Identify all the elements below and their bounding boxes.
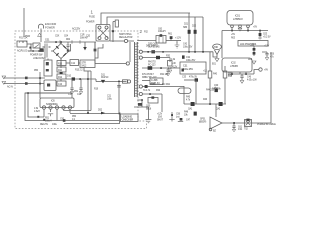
IC6 leg2 ground — [50, 109, 52, 112]
svg-text:TA 4.7k: TA 4.7k — [143, 89, 151, 92]
bottom transistor rail y104 — [184, 103, 226, 105]
wire from winding A down x210 — [209, 52, 211, 104]
dark blobs near connector bottom — [138, 103, 142, 106]
junction dots x40 — [39, 77, 41, 79]
junction dots on +5V rail — [231, 30, 233, 32]
label L7805 — [233, 15, 243, 22]
IC6 pin circles — [42, 106, 45, 109]
pill IC41 — [178, 88, 191, 94]
step down wire to ZNR — [213, 52, 217, 57]
lead wires to +5 wire — [232, 28, 248, 31]
junction x88 on mid rail — [87, 78, 89, 80]
secondary pin circle A — [139, 50, 142, 53]
wire T1 pri top to y13 — [101, 13, 190, 25]
text row under L78M05 — [212, 89, 221, 91]
diode D11 on rail — [101, 80, 105, 83]
stub into C308 — [142, 80, 150, 82]
label x40 — [34, 70, 39, 72]
svg-text:100uRY: 100uRY — [158, 31, 166, 33]
svg-text:B816: B816 — [146, 109, 152, 111]
label ZD5 — [263, 34, 271, 39]
svg-text:STR: STR — [81, 62, 86, 64]
junction — [141, 99, 143, 101]
svg-text:F01 T2A: F01 T2A — [19, 37, 28, 40]
ground mark under x24 — [38, 33, 42, 36]
regulator IC L7805 rounded body — [227, 11, 253, 26]
cap C5X blob — [67, 50, 70, 52]
svg-text:(xx): (xx) — [176, 117, 180, 119]
filter winding marks — [43, 46, 51, 48]
label under small box — [244, 129, 249, 131]
svg-text:C01: C01 — [45, 39, 50, 42]
svg-text:NJM2360A: NJM2360A — [46, 103, 58, 106]
diode D5 connector — [60, 59, 62, 82]
photocoupler PC1 tall box — [44, 60, 52, 76]
buzzer amp triangle — [210, 117, 222, 129]
vline x162 — [161, 94, 163, 112]
wire bridge bottom to caps row — [66, 62, 70, 64]
label R42 — [228, 73, 233, 78]
wire bridge left output into PC1 — [47, 59, 49, 61]
IC6 label — [46, 100, 58, 106]
svg-text:ENCODR: ENCODR — [45, 22, 56, 26]
fuse marker red circled 2 — [140, 29, 149, 34]
svg-text:100u 25V: 100u 25V — [183, 47, 193, 49]
dark marks lower — [182, 69, 184, 72]
labels under rail — [231, 34, 236, 40]
transformer T1 cross — [98, 28, 109, 39]
IC6 leg3 — [56, 109, 58, 120]
box Q50 — [148, 98, 158, 104]
secondary winding wire A — [142, 51, 213, 53]
loading checker text — [122, 115, 134, 121]
junction dot bus 2 — [60, 41, 62, 43]
svg-text:TR50: TR50 — [150, 84, 156, 86]
dark blob on small box — [246, 119, 249, 122]
cap C24 — [240, 74, 243, 80]
junction dots rail — [209, 103, 211, 105]
secondary pin circle C — [139, 85, 142, 88]
relay pins — [159, 36, 163, 43]
label C24 — [247, 77, 257, 82]
svg-text:AC IN: AC IN — [7, 86, 13, 89]
gnd cap C34 — [166, 74, 169, 77]
svg-text:R15 2.2: R15 2.2 — [75, 70, 83, 72]
wire long vertical x91 — [90, 71, 92, 111]
cap C32 junction — [182, 55, 185, 58]
capacitor C5X to gnd — [67, 42, 70, 50]
vertical x225 — [224, 66, 226, 104]
wire bridge top to bus — [60, 42, 62, 44]
svg-text:RGP10: RGP10 — [101, 77, 109, 79]
wire x203 feed to ZNR step — [202, 17, 204, 52]
dark mark left end y123.5 — [63, 119, 66, 122]
node small label above x24 line — [25, 36, 31, 38]
capacitor C12 box — [70, 60, 79, 66]
ZNR label — [213, 47, 218, 49]
cap labels — [68, 94, 82, 96]
junction x88 on y113 — [87, 112, 89, 114]
filter box FB01 — [238, 41, 268, 47]
label F01 row — [19, 37, 28, 40]
label under — [212, 64, 217, 66]
component stack left of C32 — [166, 56, 176, 71]
label SWITCHING REGULATOR — [119, 34, 133, 39]
resistor R20 on rail — [123, 80, 128, 83]
svg-text:POWER IN CABLE: POWER IN CABLE — [257, 123, 276, 126]
line filter core lines — [45, 44, 47, 58]
resistor R42 on x225 — [223, 71, 227, 78]
circle under triangle — [209, 128, 212, 131]
wire sec to connector — [128, 40, 134, 42]
svg-text:5412: 5412 — [81, 65, 87, 67]
diode D52 on y113 — [101, 112, 105, 115]
PC1 marks — [46, 62, 49, 65]
diode D23 on wire B — [156, 56, 160, 59]
svg-text:+5V: +5V — [253, 27, 257, 29]
thermistor block at x95 — [94, 42, 96, 48]
cap C15 drop — [70, 79, 73, 91]
secondary pin circle B — [139, 56, 142, 59]
label left of IC6 — [34, 108, 40, 113]
junction dots mid rail — [79, 78, 81, 80]
resistor block R12 — [57, 74, 66, 79]
IC6 leg4 — [63, 109, 65, 110]
label under triangle — [213, 131, 216, 133]
label Q50 — [146, 106, 152, 111]
labels mid — [214, 85, 219, 90]
junction dot near pin A — [147, 51, 149, 53]
label POWER upper left of T1 — [72, 28, 81, 31]
svg-text:IC02: IC02 — [231, 63, 236, 65]
svg-text:AC(PLUG): AC(PLUG) — [17, 50, 28, 53]
svg-text:100u 25V: 100u 25V — [183, 68, 193, 71]
ZNR oval — [213, 44, 222, 50]
label right faint — [257, 123, 276, 126]
label +12V — [168, 34, 181, 40]
polarity marks on AC lines — [25, 77, 28, 80]
svg-text:+5V: +5V — [231, 34, 235, 36]
FB01 dark text — [240, 43, 257, 46]
diode Q42 blob — [219, 102, 223, 106]
svg-text:REG 5V: REG 5V — [40, 124, 48, 126]
dark mark on stub — [195, 78, 198, 81]
U2 label — [81, 62, 87, 67]
regulator leads — [232, 24, 248, 26]
diode D31 dark on rail — [148, 66, 153, 70]
label R41 — [213, 74, 218, 76]
AC inlet terminal bottom — [2, 82, 6, 85]
label R19 — [94, 89, 99, 91]
gnd mark middle lead — [238, 28, 242, 31]
label rows under TR — [143, 89, 161, 92]
earth ground x148 — [146, 120, 152, 123]
wire y86.5 — [142, 86, 184, 88]
label AC — [7, 86, 13, 89]
label in box C31 — [183, 65, 193, 72]
gnd x172 — [169, 112, 174, 122]
AC line wire top — [4, 77, 45, 79]
label above relay — [158, 29, 166, 34]
wire T1 pri top2 to y17 — [107, 17, 203, 25]
wire relay to diode — [166, 40, 181, 42]
Q50 top blob — [151, 96, 154, 98]
junction dark — [171, 114, 173, 116]
resistor block R13 — [57, 81, 66, 86]
svg-text:C5X: C5X — [55, 36, 60, 38]
svg-text:470u 5V: 470u 5V — [189, 77, 198, 79]
tick marks on bus — [60, 40, 80, 44]
lower relay box — [44, 80, 56, 91]
svg-text:POWER: POWER — [86, 22, 95, 24]
svg-text:AC125V: AC125V — [72, 28, 81, 31]
secondary low rail y81.5 — [92, 79, 127, 82]
svg-text:SUP10 1N5: SUP10 1N5 — [148, 47, 160, 49]
svg-text:100uH: 100uH — [45, 120, 52, 122]
vertical x40 drop — [39, 72, 41, 98]
label +12 — [172, 67, 207, 73]
transformer terminals — [98, 26, 101, 29]
label C21 — [107, 96, 113, 101]
wire rail to buzzer — [215, 104, 217, 117]
svg-text:+5.2 5V: +5.2 5V — [263, 37, 271, 39]
labels under box — [182, 77, 198, 79]
ground glyph near +B — [175, 42, 180, 49]
ZNR gnd triangle — [215, 59, 219, 62]
junction end cap — [176, 41, 178, 44]
relay box mark — [47, 84, 50, 87]
svg-text:ZNR: ZNR — [213, 47, 218, 49]
fuse marker red circled 1 — [89, 10, 95, 19]
feedback wire left loop A — [25, 93, 120, 121]
zener stack mid right — [253, 46, 255, 56]
labels rail — [186, 97, 221, 111]
output terminal circle — [259, 68, 262, 71]
terminal circle rail — [126, 62, 129, 65]
svg-text:L7805CV: L7805CV — [233, 18, 243, 21]
svg-text:+12V: +12V — [264, 46, 270, 48]
AC line wire bottom — [4, 83, 44, 85]
label C12 — [71, 63, 76, 65]
wire bridge right up — [69, 44, 71, 51]
svg-text:50W AV: 50W AV — [80, 37, 88, 40]
dashed board outline — [15, 31, 147, 129]
junction dot fuse out — [29, 47, 31, 49]
svg-text:100u: 100u — [107, 99, 113, 101]
svg-text:PHOTO: PHOTO — [148, 62, 156, 64]
fuse F2 on switcher line — [113, 22, 115, 43]
junction dot — [231, 73, 233, 75]
label +5V right — [253, 27, 257, 29]
bottom left cluster near 184 — [184, 112, 191, 122]
wire y113 to x119 — [70, 113, 120, 115]
wire y94 — [142, 93, 162, 95]
relay RY1 box — [156, 36, 166, 44]
svg-text:POWER SW: POWER SW — [30, 55, 43, 57]
junction dot x163 — [162, 51, 164, 53]
junction dots loops — [27, 92, 29, 94]
SW regulator hybrid box U2 — [80, 60, 95, 68]
label PHOTO — [148, 62, 156, 67]
svg-text:+12V: +12V — [157, 114, 163, 116]
inductor L1 loop — [39, 24, 44, 28]
terminal circle rail right — [127, 80, 130, 83]
node ENCODR POWER label — [45, 22, 56, 29]
secondary winding wire B — [142, 57, 170, 59]
junction dot y94 — [149, 93, 151, 95]
svg-text:100u: 100u — [52, 124, 58, 126]
wire x119 down and left rail — [64, 114, 120, 124]
wire y100 from connector — [137, 99, 142, 101]
svg-text:CHECKER: CHECKER — [122, 118, 134, 121]
bridge rectifier D1-D4 diamond — [53, 44, 69, 59]
relay top blob — [160, 34, 163, 37]
label TR — [150, 83, 170, 86]
small choke box — [168, 61, 173, 67]
bottom mid cluster labels — [157, 114, 164, 122]
svg-text:(BEEP): (BEEP) — [199, 122, 206, 124]
cap C34 on rail — [167, 68, 170, 73]
label above pill — [206, 90, 215, 92]
C308 text — [151, 79, 160, 85]
wire x119 down — [118, 83, 120, 113]
cap C16 drop — [79, 79, 82, 91]
resistor block R10 — [57, 61, 66, 66]
wire bridge left — [51, 50, 53, 52]
diode blob under Q40 labels — [215, 89, 218, 93]
label rows IC51 — [142, 74, 169, 79]
wire +5 rail corner down — [221, 31, 223, 59]
vertical x184 — [183, 86, 185, 104]
label AC(PLUG) — [17, 50, 28, 53]
svg-text:SHUT: SHUT — [157, 120, 164, 122]
AC bus wire top — [44, 41, 96, 43]
label POWER left of transformer — [80, 22, 95, 40]
svg-text:FUSE: FUSE — [89, 17, 95, 19]
transformer T1 box — [96, 25, 110, 42]
junction near T1 right — [112, 30, 114, 32]
label C32 — [186, 57, 196, 62]
dark label C01 on bus left — [45, 39, 50, 42]
secondary pin circle D — [139, 92, 142, 95]
IC6 box NJM2360 — [40, 98, 74, 108]
label +9V — [264, 70, 268, 72]
wire C12 to U2 — [79, 62, 81, 64]
diode D21 vertical — [188, 13, 190, 52]
ZNR gnd wire — [216, 55, 218, 59]
wire y110.5 to x91 — [64, 110, 92, 112]
wire fuse to switch — [27, 44, 31, 51]
wire y107 — [134, 107, 149, 120]
svg-text:IC51 PC817: IC51 PC817 — [142, 74, 154, 76]
diode Q41 blob — [191, 102, 195, 106]
svg-text:+9V: +9V — [264, 70, 268, 72]
label L78M05 — [230, 63, 239, 69]
resistor block R11 — [57, 67, 66, 72]
svg-text:POWER: POWER — [45, 25, 55, 29]
diode D-bus arrow — [84, 42, 86, 47]
terminal circle sec — [124, 39, 127, 42]
junction dot on out wire — [233, 122, 235, 124]
dark blob on y86.5 — [145, 85, 148, 88]
labels under legs — [40, 116, 77, 126]
zener ZD2 — [170, 37, 172, 41]
label D11 — [101, 75, 109, 80]
wire L1 to AC bus — [40, 29, 42, 43]
junction dot bus 1 — [55, 41, 57, 43]
IC6 leg5 — [69, 109, 71, 113]
wire long vertical x88 — [87, 71, 89, 113]
wire lower rail to connector — [95, 58, 126, 64]
label above mid rail — [67, 70, 83, 78]
svg-text:D30 OUT: D30 OUT — [148, 44, 158, 46]
switch contact dark blob — [40, 48, 44, 52]
box C308 — [150, 78, 163, 85]
svg-text:L02 470uH C04: L02 470uH C04 — [240, 43, 257, 46]
junction dots on winding A — [188, 51, 190, 53]
label left of triangle — [199, 119, 206, 124]
AC inlet terminal top — [2, 76, 6, 79]
zener ZD5 — [259, 31, 261, 33]
wire encoder power line — [23, 8, 25, 37]
box loading checker — [121, 114, 139, 122]
svg-text:SP01: SP01 — [200, 119, 206, 121]
junction dot rail y68 — [160, 67, 162, 69]
junction on rail at x119 — [118, 81, 120, 83]
cap C60 under junction — [232, 124, 235, 129]
+5V rail — [222, 30, 268, 32]
diode D22 vertical — [194, 17, 196, 52]
junction dot y113/x119 — [119, 113, 121, 115]
svg-text:C1R: C1R — [80, 35, 85, 37]
fuse F1 box — [17, 41, 27, 47]
small comp right — [176, 114, 181, 119]
svg-text:+12V: +12V — [175, 36, 181, 40]
wire B drop — [169, 58, 171, 62]
wire switch to filter — [28, 50, 44, 52]
diode D24 on winding wire — [151, 50, 155, 53]
staircase wire from bus to SW block — [95, 42, 103, 58]
svg-text:+12V: +12V — [172, 67, 178, 69]
connector ladder CN1 — [135, 42, 138, 97]
labels in blocks — [58, 63, 63, 86]
switch S1 box — [33, 43, 40, 48]
box C31 — [180, 62, 206, 74]
cap C16 gnd — [79, 92, 82, 95]
wire stub fuse to switch top — [30, 43, 33, 45]
bridge diode marks — [56, 46, 66, 56]
labels left of box — [228, 76, 233, 78]
resistor R41 on x210 — [208, 71, 212, 78]
vline x142 — [141, 100, 143, 107]
label above D52 — [98, 110, 103, 112]
svg-text:1.5uH: 1.5uH — [34, 111, 40, 113]
wire vertical x130 connector feed — [129, 42, 131, 62]
cap C22 marks on x119 — [117, 86, 121, 88]
regulator IC L78M05 rounded body — [222, 58, 252, 72]
vertical x196 — [195, 80, 197, 104]
label rows D30 — [148, 44, 193, 49]
label below — [146, 46, 159, 48]
rail +24 y68 — [142, 67, 180, 69]
feedback wire left loop B — [28, 93, 44, 117]
long output wire bottom right — [222, 52, 271, 123]
svg-text:R31 102: R31 102 — [160, 74, 169, 76]
diode dark — [194, 112, 197, 116]
cap C15 gnd — [70, 92, 73, 95]
gnd under zener stack — [252, 61, 256, 64]
C24 gnd — [240, 81, 244, 84]
